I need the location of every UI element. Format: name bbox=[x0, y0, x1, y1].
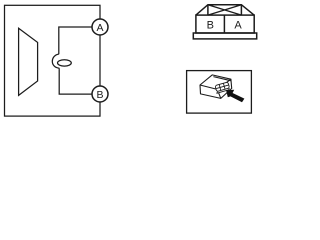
terminal block bbox=[215, 82, 230, 93]
speaker unit box bbox=[5, 5, 101, 116]
connector 3d inner edges bbox=[200, 79, 231, 98]
terminal B bbox=[92, 86, 108, 102]
connector body bbox=[196, 15, 254, 33]
svg-text:B: B bbox=[207, 19, 214, 31]
connector 3d body outline bbox=[200, 75, 232, 99]
wire from coil to terminal B bbox=[59, 68, 92, 94]
svg-text:A: A bbox=[234, 19, 242, 31]
view arrow bbox=[226, 90, 244, 103]
view icon box bbox=[187, 71, 252, 114]
voice coil loop bbox=[52, 54, 59, 68]
connector flange bbox=[193, 33, 256, 39]
terminal A bbox=[92, 19, 108, 35]
connector lock tab X bbox=[208, 5, 242, 15]
speaker cone bbox=[19, 28, 38, 95]
svg-text:B: B bbox=[96, 89, 103, 101]
connector cavity divider bbox=[223, 15, 225, 33]
wire from terminal A to coil bbox=[59, 27, 93, 54]
connector lock tab outline bbox=[196, 5, 254, 15]
connector lock tab verticals bbox=[208, 5, 242, 15]
connector 3d top lip bbox=[213, 77, 230, 81]
svg-text:A: A bbox=[96, 22, 103, 34]
voice coil ellipse bbox=[58, 60, 72, 66]
